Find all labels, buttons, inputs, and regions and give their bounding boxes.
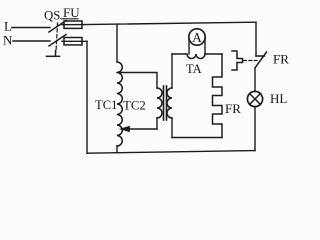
wire ammeter right leg bbox=[204, 39, 206, 54]
fuse FU1 through-wire bbox=[62, 24, 84, 26]
svg-text:TC1: TC1 bbox=[95, 98, 117, 112]
contact FR normally-closed tick bbox=[256, 55, 265, 57]
wire TC1 top lead bbox=[116, 24, 118, 62]
wire L input bbox=[12, 27, 50, 29]
contact FR movable blade bbox=[255, 52, 267, 68]
autotransformer TC1 winding bbox=[117, 62, 122, 146]
arrow tap of TC1 bbox=[127, 128, 157, 130]
current transformer TA winding bbox=[187, 54, 205, 59]
svg-text:FR: FR bbox=[273, 52, 289, 67]
wire secondary loop top side left bbox=[172, 53, 187, 55]
fuse FU1 body bbox=[64, 21, 82, 28]
wire TC2 primary bottom lead bbox=[156, 118, 158, 129]
switch QS pole 2 blade bbox=[49, 35, 66, 47]
fuse FU label underline bbox=[61, 18, 78, 20]
wire TC2 secondary top lead bbox=[171, 54, 173, 88]
switch QS linkage dashed bbox=[56, 23, 58, 52]
wire TC1 bottom lead bbox=[116, 146, 118, 153]
svg-text:TA: TA bbox=[186, 62, 202, 76]
wire TC1 fixed tap to TC2 primary top bbox=[117, 73, 157, 89]
switch QS pole 1 blade bbox=[49, 21, 66, 33]
switch QS handle bar bbox=[47, 55, 60, 57]
svg-text:L: L bbox=[4, 19, 12, 34]
wire lamp branch from top rail bbox=[255, 22, 257, 56]
wire N branch vertical bbox=[86, 41, 88, 153]
wire TC2 secondary bottom lead bbox=[171, 118, 173, 138]
wire contact to lamp bbox=[254, 68, 256, 91]
wire N input bbox=[13, 40, 50, 42]
transformer TC2 core bbox=[163, 86, 165, 120]
svg-text:TC2: TC2 bbox=[123, 99, 146, 113]
svg-text:N: N bbox=[3, 33, 13, 48]
fuse FU2 through-wire bbox=[62, 40, 87, 42]
fuse FU2 body bbox=[64, 38, 82, 45]
thermal relay FR heater element bbox=[213, 54, 223, 138]
svg-text:QS: QS bbox=[44, 9, 60, 23]
dashed link operator to contact bbox=[244, 60, 258, 62]
svg-text:FR: FR bbox=[225, 101, 241, 116]
wire lamp to bottom rail bbox=[254, 107, 256, 151]
thermal operator of FR bbox=[232, 51, 243, 70]
svg-text:FU: FU bbox=[63, 5, 80, 20]
switch QS handle stub bbox=[55, 51, 57, 57]
ammeter A bbox=[189, 29, 205, 45]
transformer TC2 primary winding bbox=[157, 88, 162, 118]
lamp HL bbox=[247, 91, 262, 106]
wire top rail L bbox=[84, 22, 256, 24]
wire secondary loop bottom side bbox=[172, 137, 222, 139]
transformer TC2 secondary winding bbox=[167, 88, 172, 118]
wire ammeter left leg bbox=[188, 39, 190, 54]
svg-text:A: A bbox=[192, 30, 202, 45]
svg-text:HL: HL bbox=[270, 91, 287, 106]
wire bottom rail N bbox=[87, 151, 255, 154]
wire secondary loop top side right bbox=[205, 53, 222, 55]
